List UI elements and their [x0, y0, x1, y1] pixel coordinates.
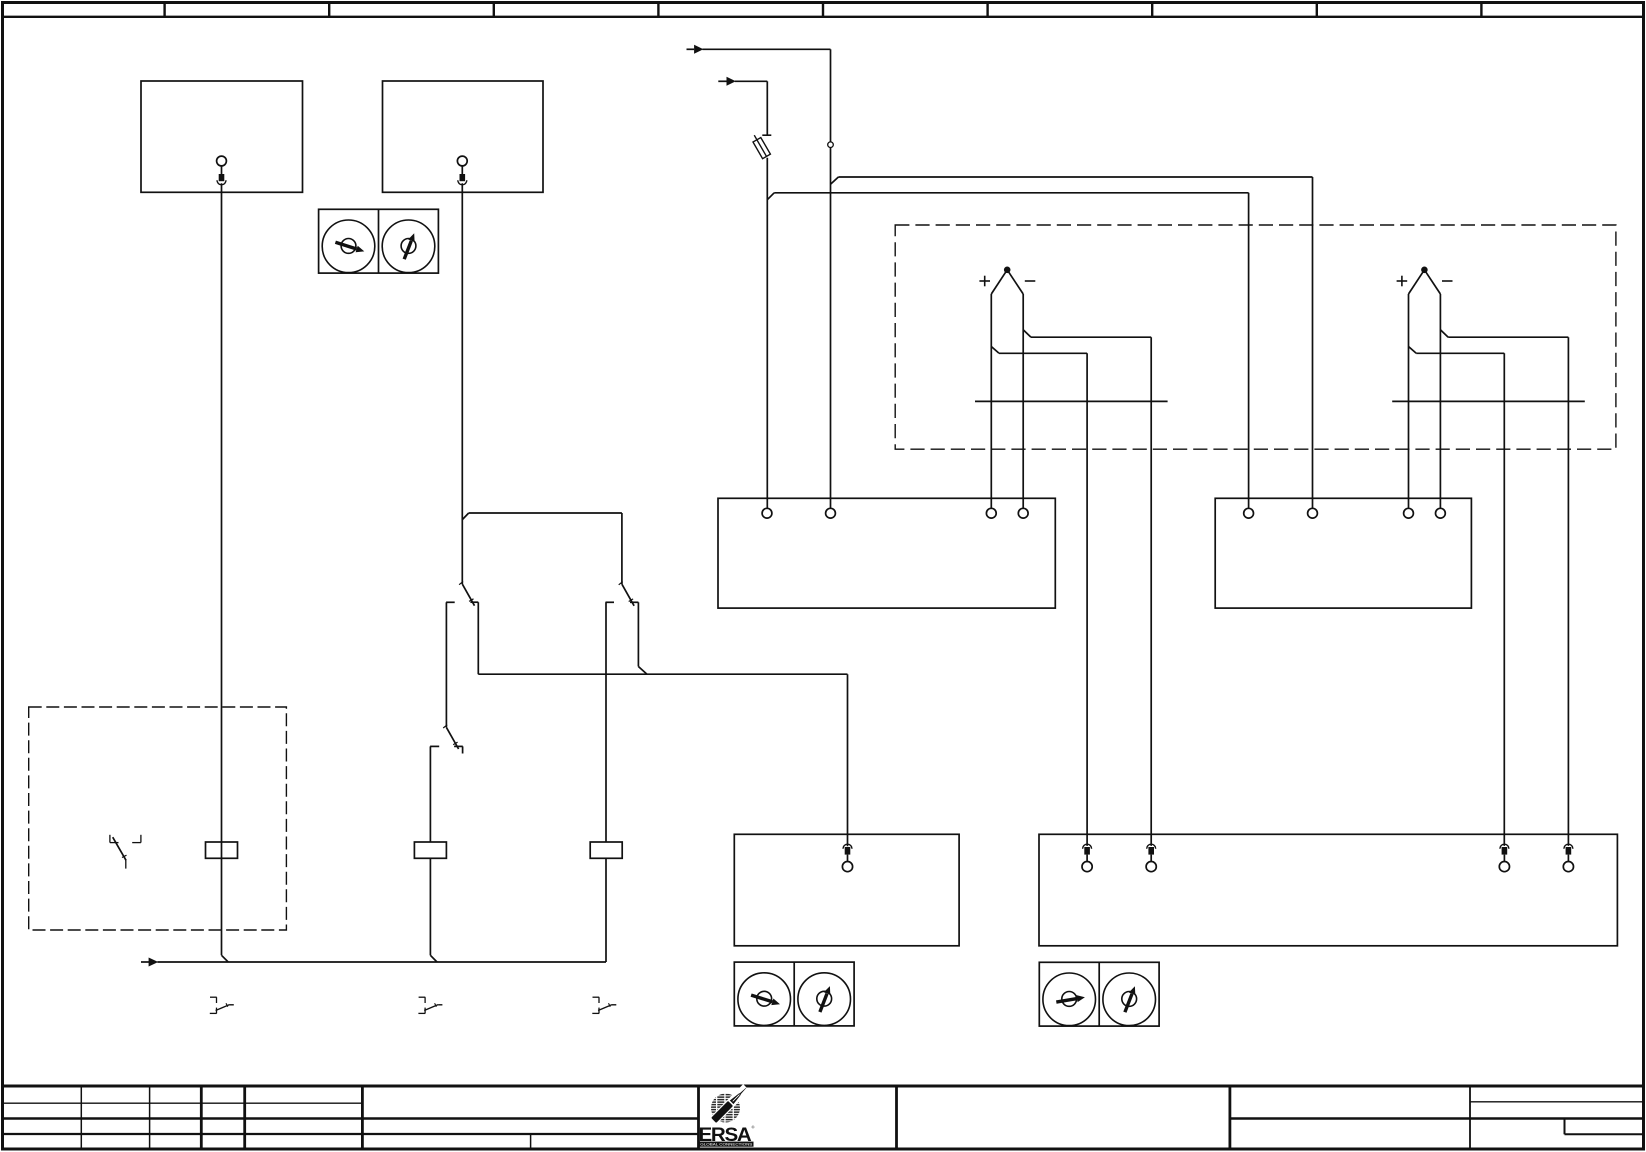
relay contact K1: [210, 997, 234, 1013]
wire L1 vertical down: [830, 49, 832, 142]
connector pin P5: [1563, 844, 1573, 872]
wire L2 horizontal: [735, 80, 768, 82]
adjustment dials (bottom right): [1039, 962, 1159, 1026]
changeover switch S1: [446, 582, 478, 728]
wire from box 1 down to relay coil K1: [221, 183, 223, 955]
ERSA logo: [699, 1084, 755, 1147]
terminal A4: [1018, 508, 1028, 518]
terminal B1: [1244, 508, 1254, 518]
wire jog to bus N2: [767, 193, 774, 200]
wire jog to bus N1: [831, 177, 839, 184]
wire branch jog: [462, 513, 468, 520]
sheet zone strip column dividers: [165, 3, 1482, 17]
bus arrow N: [141, 961, 149, 963]
wire L1 horizontal: [702, 48, 830, 50]
terminal B2: [1308, 508, 1318, 518]
wire jog joining bottom bus: [222, 955, 229, 962]
relay contact K2: [418, 997, 442, 1013]
fuse top bar: [762, 134, 771, 136]
thermostat contact: [110, 835, 141, 869]
plug junction on L1: [828, 142, 834, 148]
connector pin P4: [1499, 844, 1509, 872]
wire K2 to bus: [429, 858, 431, 955]
adjustment dials (bottom left): [734, 962, 854, 1026]
connector pin of box 1: [217, 156, 227, 185]
wire run to heater plate box: [478, 673, 847, 675]
svg-text:GLOBAL CONNECTIONS: GLOBAL CONNECTIONS: [700, 1143, 753, 1147]
title block grid: [3, 1086, 1644, 1150]
svg-text:®: ®: [752, 1125, 755, 1130]
tool holder box 2: [383, 81, 544, 192]
dashed enclosure: soldering tools: [895, 225, 1616, 449]
changeover switch S3: [430, 725, 463, 842]
wire N2 horizontal: [774, 192, 1248, 194]
connector pin P1: [842, 844, 852, 872]
heater plate box (long): [1039, 834, 1617, 946]
changeover switch S2: [606, 582, 648, 842]
sheet zone strip bottom rule: [3, 16, 1644, 18]
dashed enclosure: base unit: [29, 707, 287, 930]
wire L2 vertical to fuse: [766, 81, 768, 135]
supply arrow L2: [718, 80, 726, 82]
thermal fuse F1: [750, 133, 770, 159]
terminal A2: [826, 508, 836, 518]
bottom bus wire: [157, 961, 606, 963]
wire N2 vertical down to terminal: [1248, 193, 1250, 509]
heater plate box (single): [734, 834, 959, 946]
relay contact K3: [592, 997, 616, 1013]
supply arrow L1: [687, 48, 695, 50]
wire branch vertical down to S2: [621, 513, 623, 584]
wire L1 vertical to terminal: [830, 147, 832, 508]
connector pin P2: [1082, 844, 1092, 872]
connector pin P3: [1146, 844, 1156, 871]
relay coil K3: [590, 842, 622, 858]
control unit box A: [718, 498, 1055, 608]
wire from box 2 down to switch S1: [461, 183, 463, 584]
wire N1 horizontal: [838, 176, 1312, 178]
thermocouple and heater of tool 2: [1392, 267, 1585, 846]
control unit box B: [1215, 498, 1471, 608]
wire from fuse down to terminal: [766, 158, 768, 509]
wire K3 to bus: [605, 858, 607, 962]
wire down to heater plate terminal: [847, 674, 849, 846]
terminal B4: [1436, 508, 1446, 518]
terminal A1: [762, 508, 772, 518]
relay coil K2: [414, 842, 446, 858]
relay coil K1: [206, 842, 238, 858]
tool holder box 1: [141, 81, 303, 192]
wire branch horizontal to S2: [469, 512, 622, 514]
adjustment dials (top): [319, 209, 439, 273]
wire N1 vertical down to terminal: [1312, 177, 1314, 508]
thermocouple and heater of tool 1: [975, 267, 1168, 846]
connector pin of box 2: [457, 156, 467, 185]
terminal B3: [1404, 508, 1414, 518]
terminal A3: [986, 508, 996, 518]
